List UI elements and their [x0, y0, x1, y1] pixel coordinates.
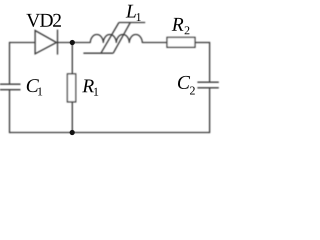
- wire R1 bottom to bottom node: [71, 102, 73, 133]
- wire diode cathode to inductor: [58, 42, 91, 44]
- label VD2: [26, 14, 61, 27]
- wire right side upper (corner to C2 top plate): [209, 42, 211, 82]
- wire inductor to R2: [142, 42, 167, 44]
- wire R1 branch upper (node to R1 top): [71, 43, 73, 75]
- wire right side lower (C2 to bottom-right corner): [209, 88, 211, 133]
- inductor L1 saturable-core slash (left diagonal): [101, 23, 119, 54]
- label L1: [126, 5, 141, 21]
- label R2: [172, 18, 190, 34]
- label R1: [82, 80, 98, 96]
- resistor R2 body: [167, 37, 195, 47]
- capacitor C2 bottom plate: [197, 87, 218, 89]
- wire left side lower (C1 to bottom-left corner): [9, 90, 11, 133]
- resistor R1 body: [67, 74, 75, 102]
- diode VD2 triangle: [35, 31, 56, 54]
- wire top-left (corner to diode anode): [10, 42, 36, 44]
- inductor L1 saturable-core slash (bottom tail): [83, 52, 113, 54]
- node junction dot bottom: [70, 130, 75, 135]
- capacitor C2 top plate: [197, 81, 218, 83]
- label C1: [27, 79, 42, 95]
- capacitor C1 bottom plate: [0, 89, 21, 91]
- inductor L1 coil (4 humps): [90, 35, 142, 43]
- diode VD2 cathode bar: [57, 30, 59, 55]
- wire bottom: [10, 132, 210, 134]
- node junction dot after diode: [70, 40, 75, 45]
- wire R2 to top-right corner: [195, 42, 210, 44]
- wire left side upper (corner to C1 top plate): [9, 42, 11, 84]
- inductor L1 saturable-core slash (right diagonal): [113, 23, 130, 54]
- inductor L1 saturable-core slash (top tail): [119, 22, 145, 24]
- label C2: [178, 76, 195, 95]
- capacitor C1 top plate: [0, 83, 21, 85]
